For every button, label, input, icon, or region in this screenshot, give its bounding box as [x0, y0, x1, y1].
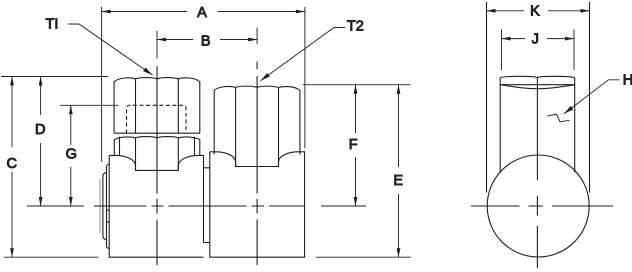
dim D arrows — [39, 77, 43, 207]
dim G line — [70, 105, 72, 206]
svg-text:K: K — [530, 3, 540, 19]
dim D line — [40, 77, 42, 207]
dim K arrows — [487, 9, 590, 13]
nut T2 hex edge right — [278, 87, 280, 166]
dim A extension line right — [304, 7, 306, 148]
side view hex chamfer arcs — [500, 85, 575, 89]
leader T1 arrowhead — [143, 67, 154, 76]
hose collar outermost edge — [99, 179, 101, 233]
side view hex chamfer line — [500, 84, 575, 86]
dim J arrows — [502, 37, 575, 41]
nut T2 outline (right stack) — [214, 86, 300, 154]
ref line bottom right — [316, 256, 411, 258]
nut T1 bottom edge — [114, 132, 200, 134]
dim A arrows — [102, 10, 305, 14]
side view hex top face — [500, 76, 575, 77]
dim B extension left — [156, 31, 158, 59]
svg-text:H: H — [623, 73, 632, 89]
svg-text:T2: T2 — [347, 19, 364, 35]
dim B line — [157, 39, 257, 41]
dim K line — [487, 10, 590, 12]
dim F line — [355, 85, 357, 206]
dim F arrows — [354, 85, 358, 206]
side view hex corner left — [486, 2, 488, 193]
dim A line — [102, 11, 305, 13]
centerline stack2 vertical — [256, 62, 258, 266]
side view hex face edge right — [574, 78, 576, 173]
svg-text:E: E — [393, 173, 403, 189]
hex section stack1 outline — [114, 137, 200, 156]
centerline horizontal left view — [27, 205, 366, 207]
ref line top of nut T1 — [1, 76, 108, 78]
centerline side view horizontal — [471, 205, 613, 207]
svg-text:D: D — [35, 122, 45, 138]
dim E arrows — [397, 85, 401, 258]
side view hex center edge — [536, 77, 538, 180]
hose collar rung lower — [107, 221, 110, 223]
side view body circle — [487, 155, 589, 257]
side view hex corner right — [589, 2, 591, 193]
svg-text:G: G — [66, 147, 77, 163]
svg-text:C: C — [7, 156, 17, 172]
leader T1 — [68, 24, 152, 75]
body stack1 neck edge left — [135, 138, 137, 171]
hose collar inner step — [107, 164, 110, 248]
leader T2 — [261, 28, 346, 81]
hex flat break mark (H target) — [548, 114, 570, 122]
dim J extension left — [501, 30, 503, 71]
dim J line — [502, 38, 575, 40]
ref line bottom left — [4, 256, 99, 258]
leader H arrowhead — [563, 106, 574, 116]
hex section stack1 corner edge left — [119, 137, 121, 156]
dim J extension right — [573, 30, 575, 71]
hex section stack1 corner edge right — [194, 137, 196, 156]
ref line top right view of nut T2 — [303, 84, 411, 86]
centerline side view vertical — [536, 196, 538, 268]
svg-text:A: A — [197, 5, 207, 21]
centerline stack1 vertical — [156, 66, 158, 265]
dim G arrows — [69, 105, 73, 206]
nut T1 outline (left stack) — [114, 78, 200, 134]
nut T2 hex edge left — [235, 87, 237, 166]
svg-text:TI: TI — [46, 17, 59, 33]
svg-text:B: B — [201, 34, 211, 50]
dim C line — [11, 77, 13, 258]
side view hex face edge left — [499, 78, 501, 173]
svg-text:J: J — [532, 32, 539, 48]
hose collar rung upper — [107, 209, 110, 211]
dim B arrows — [157, 38, 257, 42]
dim A extension line left — [101, 7, 103, 162]
leader T2 arrowhead — [259, 73, 270, 83]
leader H — [564, 80, 620, 114]
nut T1 hex edge right — [177, 79, 179, 133]
body stack2 outline — [210, 152, 305, 257]
dim B extension right — [256, 28, 258, 45]
hose collar outer step — [103, 173, 107, 240]
nut T1 hex edge left — [135, 79, 137, 133]
body stack1 neck edge right — [177, 138, 179, 171]
svg-text:F: F — [349, 137, 358, 153]
dim E line — [398, 85, 400, 258]
ref line thread depth — [60, 104, 119, 106]
nut T1 hidden thread (dashed) — [127, 105, 187, 133]
body stack1 outline — [109, 155, 210, 257]
dim C arrows — [10, 77, 14, 258]
